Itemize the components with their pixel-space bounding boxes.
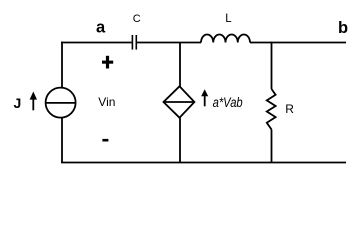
svg-text:C: C [133,13,141,25]
svg-text:L: L [225,13,232,25]
svg-text:a: a [96,18,106,36]
svg-text:J: J [14,95,22,111]
svg-text:a*Vab: a*Vab [213,95,243,110]
svg-text:b: b [338,19,348,37]
svg-text:R: R [285,102,294,116]
svg-text:Vin: Vin [98,95,115,109]
